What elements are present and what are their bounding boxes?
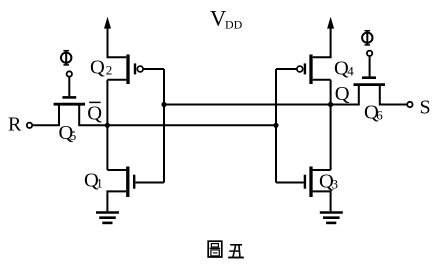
wire Q1 gate lead [135,182,164,184]
transistor Q2 gate bar [134,63,136,74]
node Qbar junction dot [105,123,110,128]
svg-text:2: 2 [106,62,113,77]
wire left gate line [163,69,165,183]
svg-text:5: 5 [70,128,77,143]
node label Q [335,83,350,105]
transistor Q6 gate bar [362,76,376,79]
wire Q4 gate to right gate line [276,68,297,70]
svg-text:V: V [210,6,226,31]
wire Q3 drain lead [313,169,331,171]
svg-text:Q: Q [90,56,105,78]
transistor Q1 gate bar [133,175,135,189]
power label VDD [210,6,243,32]
node label Qbar [87,102,102,124]
transistor Q5 label [59,122,77,144]
transistor Q1 label [84,170,103,192]
svg-text:Q: Q [87,103,102,125]
wire clock left to Q5 gate [68,77,70,96]
wire Q4 drain to node Q [313,79,331,81]
clock terminal left [67,71,72,76]
wire Q2 source to VDD arrow [104,17,126,58]
svg-text:R: R [8,113,22,135]
transistor Q2 channel [126,55,129,85]
caption figure five char wu [228,245,244,258]
wire lower cross coupling [107,124,276,126]
wire clock right to Q6 gate [369,56,371,76]
clock label phi right [362,30,372,45]
transistor Q5 channel [54,103,85,106]
wire Q1 drain lead [107,169,126,171]
node right gate junction dot [273,123,278,128]
output terminal S [407,102,412,107]
transistor Q4 gate bar [304,63,306,74]
transistor Q1 channel [126,167,129,198]
node left gate junction dot [161,102,166,107]
svg-text:S: S [420,96,431,118]
ground right [320,213,343,223]
transistor Q3 channel [309,167,312,198]
transistor Q5 gate bar [62,96,76,99]
wire Q2 gate to left gate line [143,68,164,70]
wire Q1 source to ground [107,191,126,211]
wire Q bus [330,80,332,170]
clock terminal right [367,51,372,56]
svg-text:4: 4 [347,64,354,79]
transistor Q4 channel [309,55,312,85]
input label R [8,113,22,135]
ground left [96,213,119,223]
input terminal R [27,123,32,128]
transistor Q6 channel [354,83,386,86]
svg-text:6: 6 [376,108,383,123]
wire Q4 source to VDD arrow [313,17,334,58]
transistor Q6 label [364,102,383,124]
wire upper cross coupling [164,104,331,106]
node Q junction dot [328,102,333,107]
wire right gate line [275,69,277,183]
svg-text:1: 1 [96,176,103,191]
output label S [420,96,431,118]
svg-text:3: 3 [332,177,339,192]
wire Q6 drain to terminal S [380,85,407,105]
wire R to Q5 source [32,106,59,126]
wire Q2 drain to node Qbar [107,79,126,81]
transistor Q3 label [319,171,338,193]
transistor Q2 gate bubble [137,66,143,72]
wire Q3 source to ground [313,191,331,211]
wire Q3 gate lead [276,182,304,184]
svg-text:DD: DD [225,17,243,31]
transistor Q2 label [90,56,112,78]
clock label phi left [61,50,71,65]
transistor Q4 gate bubble [297,66,303,72]
caption figure five char tu [208,241,222,257]
wire Q5 drain to node Qbar [79,104,107,125]
wire Qbar bus [106,80,108,170]
wire node Q to Q6 source [331,85,359,105]
svg-text:Q: Q [335,83,350,105]
transistor Q4 label [334,58,354,80]
transistor Q3 gate bar [304,175,306,189]
